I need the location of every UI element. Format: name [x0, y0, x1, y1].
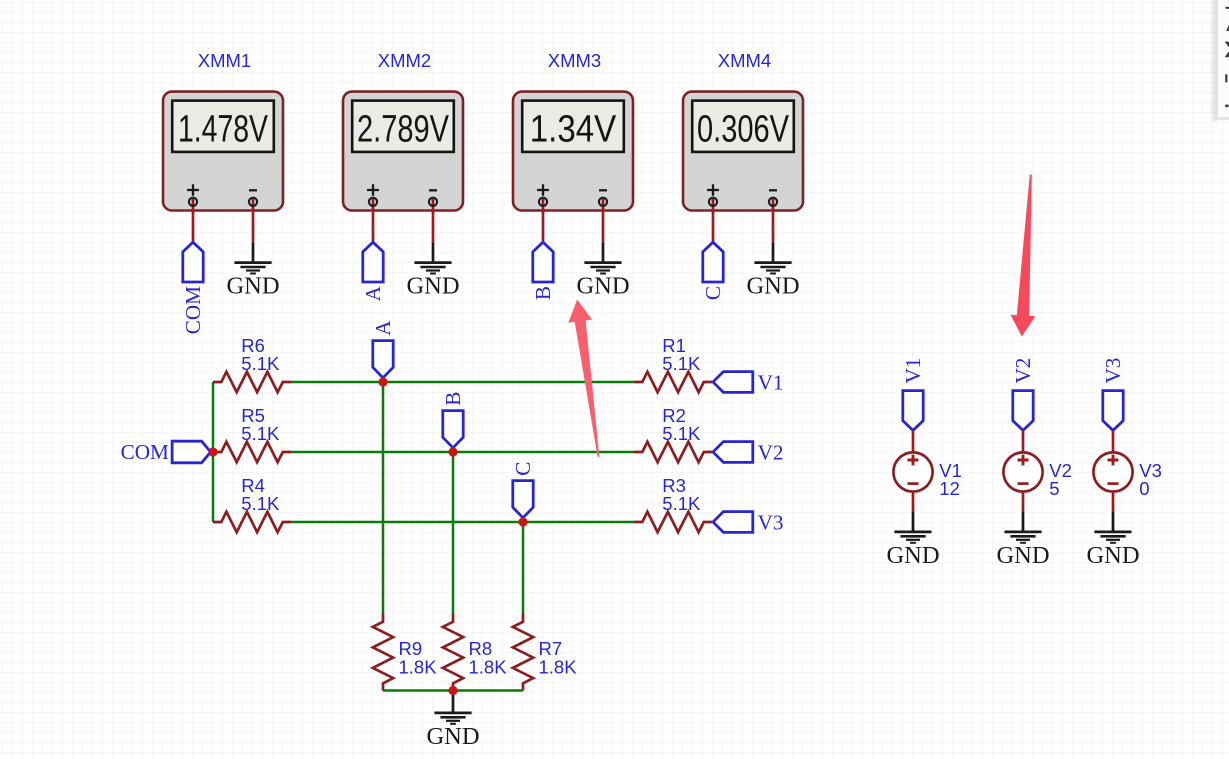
svg-text:GND: GND	[226, 273, 279, 300]
svg-text:A: A	[371, 320, 395, 336]
wire XMM2 - to ground	[432, 243, 435, 262]
voltage source V2	[1003, 452, 1042, 491]
wire V2 bottom	[1022, 493, 1025, 512]
svg-text:1.8K: 1.8K	[399, 657, 438, 678]
svg-text:5.1K: 5.1K	[241, 353, 280, 374]
wire bottom row	[383, 689, 523, 692]
svg-text:0.306V: 0.306V	[697, 108, 789, 150]
multimeter XMM4	[683, 50, 803, 211]
voltage source V1	[893, 452, 932, 491]
resistor R4 5.1K	[213, 475, 291, 532]
wire V2 to ground	[1022, 511, 1025, 531]
svg-text:2.789V: 2.789V	[357, 108, 449, 150]
wire V2 top	[1022, 430, 1025, 453]
terminal - of XMM1	[249, 198, 257, 206]
ground under V3	[1094, 532, 1131, 543]
wire XMM4 - to ground	[772, 243, 775, 262]
wire left bus vertical	[212, 382, 215, 522]
svg-text:12: 12	[939, 478, 960, 499]
wire row3 node C	[291, 521, 635, 524]
on-page connector V1	[713, 372, 753, 393]
ground under V1	[894, 532, 931, 543]
svg-text:1.34V: 1.34V	[530, 108, 617, 150]
terminal + of XMM4	[709, 198, 717, 206]
svg-text:B: B	[531, 286, 555, 300]
svg-text:C: C	[701, 286, 725, 300]
multimeter XMM1	[163, 50, 283, 211]
svg-text:5.1K: 5.1K	[662, 353, 701, 374]
wire row1 node A	[291, 381, 635, 384]
svg-text:5: 5	[1049, 478, 1059, 499]
panel shadow	[1209, 0, 1217, 121]
terminal + of XMM3	[539, 198, 547, 206]
on-page connector COM under XMM1 (pin COM)	[181, 242, 205, 334]
svg-text:GND: GND	[996, 542, 1049, 569]
on-page connector A under XMM2 (pin A)	[361, 242, 385, 301]
svg-text:V1: V1	[901, 358, 925, 384]
ground under V2	[1004, 532, 1041, 543]
wire V3 to ground	[1112, 511, 1115, 531]
on-page connector COM	[172, 441, 211, 463]
on-page connector B under XMM3 (pin B)	[531, 242, 555, 300]
svg-text:V3: V3	[1101, 358, 1125, 384]
svg-text:GND: GND	[1086, 542, 1139, 569]
resistor R5 5.1K	[213, 405, 291, 462]
svg-text:V2: V2	[1011, 358, 1035, 384]
svg-text:XMM2: XMM2	[378, 50, 431, 71]
wire XMM2 + lead	[372, 199, 375, 243]
on-page connector V1	[903, 391, 923, 431]
terminal - of XMM3	[599, 198, 607, 206]
wire XMM3 - to ground	[602, 243, 605, 262]
wire XMM1 + lead	[192, 199, 195, 243]
wire column C vertical	[522, 522, 525, 614]
floating toolbar panel	[1217, 0, 1229, 120]
on-page connector V3	[1103, 391, 1123, 431]
resistor R6 5.1K	[213, 335, 291, 392]
voltage source V3	[1093, 452, 1132, 491]
wire XMM2 - lead	[432, 199, 435, 243]
annotation arrow down toward V2	[1011, 174, 1036, 336]
svg-text:V3: V3	[758, 511, 784, 535]
svg-text:5.1K: 5.1K	[662, 493, 701, 514]
junction C	[518, 517, 527, 526]
wire V1 to ground	[912, 511, 915, 531]
annotation arrow up toward XMM3	[568, 299, 599, 457]
resistor R7 1.8K	[513, 614, 577, 691]
svg-text:1.8K: 1.8K	[539, 657, 578, 678]
svg-text:A: A	[361, 285, 385, 301]
wire XMM3 + lead	[542, 199, 545, 243]
svg-text:XMM4: XMM4	[718, 50, 771, 71]
multimeter XMM2	[343, 50, 463, 211]
wire bottom node to ground	[452, 691, 455, 712]
svg-text:COM: COM	[121, 440, 169, 464]
svg-text:C: C	[511, 462, 535, 476]
wire V3 bottom	[1112, 493, 1115, 512]
wire XMM4 + lead	[712, 199, 715, 243]
on-page connector node C (C)	[511, 462, 535, 518]
svg-text:GND: GND	[746, 273, 799, 300]
wire column B vertical	[452, 452, 455, 614]
svg-text:XMM1: XMM1	[198, 50, 251, 71]
wire XMM1 - lead	[252, 199, 255, 243]
on-page connector node A (A)	[371, 320, 395, 378]
svg-text:V2: V2	[758, 441, 784, 465]
junction A	[378, 377, 387, 386]
terminal + of XMM2	[369, 198, 377, 206]
svg-text:5.1K: 5.1K	[662, 423, 701, 444]
terminal + of XMM1	[189, 198, 197, 206]
wire XMM4 - lead	[772, 199, 775, 243]
ground under XMM2	[414, 263, 451, 274]
panel icon fragments	[1225, 7, 1229, 107]
ground under XMM4	[754, 263, 791, 274]
resistor R2 5.1K	[634, 405, 712, 462]
terminal - of XMM4	[769, 198, 777, 206]
resistor R3 5.1K	[634, 475, 712, 532]
svg-text:5.1K: 5.1K	[241, 493, 280, 514]
svg-text:COM: COM	[181, 286, 205, 334]
svg-text:B: B	[441, 392, 465, 406]
ground bottom	[434, 713, 471, 724]
svg-text:1.478V: 1.478V	[178, 108, 268, 150]
on-page connector node B (B)	[441, 392, 465, 448]
ground under XMM3	[584, 263, 621, 274]
svg-text:5.1K: 5.1K	[241, 423, 280, 444]
svg-text:GND: GND	[576, 273, 629, 300]
wire V3 top	[1112, 430, 1115, 453]
svg-text:XMM3: XMM3	[548, 50, 601, 71]
junction bottom	[448, 686, 457, 695]
on-page connector C under XMM4 (pin C)	[701, 242, 725, 300]
on-page connector V2	[1013, 391, 1033, 431]
on-page connector V3	[713, 512, 753, 533]
resistor R9 1.8K	[373, 614, 437, 691]
wire XMM1 - to ground	[252, 243, 255, 262]
wire XMM3 - lead	[602, 199, 605, 243]
resistor R8 1.8K	[443, 614, 507, 691]
junction COM bus	[208, 447, 217, 456]
ground under XMM1	[234, 263, 271, 274]
on-page connector V2	[713, 442, 753, 463]
svg-text:GND: GND	[886, 542, 939, 569]
terminal - of XMM2	[429, 198, 437, 206]
wire V1 bottom	[912, 493, 915, 512]
svg-text:GND: GND	[426, 723, 479, 750]
wire column A vertical	[382, 382, 385, 614]
svg-text:0: 0	[1139, 478, 1149, 499]
svg-text:V1: V1	[758, 371, 784, 395]
wire row2 node B	[291, 451, 635, 454]
resistor R1 5.1K	[634, 335, 712, 392]
svg-text:1.8K: 1.8K	[469, 657, 508, 678]
wire V1 top	[912, 430, 915, 453]
junction B	[448, 447, 457, 456]
svg-text:GND: GND	[406, 273, 459, 300]
multimeter XMM3	[513, 50, 633, 211]
